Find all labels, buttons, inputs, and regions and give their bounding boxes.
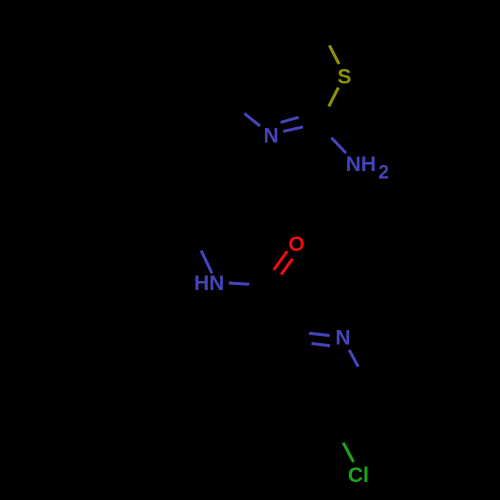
wire: bond C2-NH2 (N half) [331, 138, 346, 153]
wire: bond C2=N1 line b (N half) [281, 117, 299, 122]
wire: bond CH3-S (S half) [329, 45, 339, 64]
wire: bond N1-Caryl (N half) [244, 114, 260, 127]
wire: bond pyC2=N line b (N half) [312, 344, 331, 346]
wire: bond S-C2 (S half) [329, 88, 339, 107]
svg-text:2: 2 [378, 163, 389, 184]
svg-text:N: N [335, 327, 350, 350]
svg-text:NH: NH [346, 153, 376, 176]
svg-text:S: S [337, 66, 351, 89]
wire: bond pyC2=N line a (N half) [309, 333, 330, 335]
wire: bond C=O line a (O half) [274, 251, 288, 270]
wire: bond NH-C(O) (N half) [229, 283, 249, 284]
wire: bond pyN-C6 (N half) [349, 350, 358, 367]
svg-text:Cl: Cl [348, 464, 369, 487]
wire: bond C5-Cl (Cl half) [343, 443, 353, 462]
svg-text:N: N [264, 125, 279, 148]
svg-text:HN: HN [194, 272, 224, 295]
wire: bond Caryl-NH (N half) [201, 251, 212, 274]
wire: bond C2=N1 line a (N half) [283, 127, 303, 131]
wire: bond C=O line b (O half) [281, 259, 292, 275]
svg-text:O: O [288, 233, 304, 256]
